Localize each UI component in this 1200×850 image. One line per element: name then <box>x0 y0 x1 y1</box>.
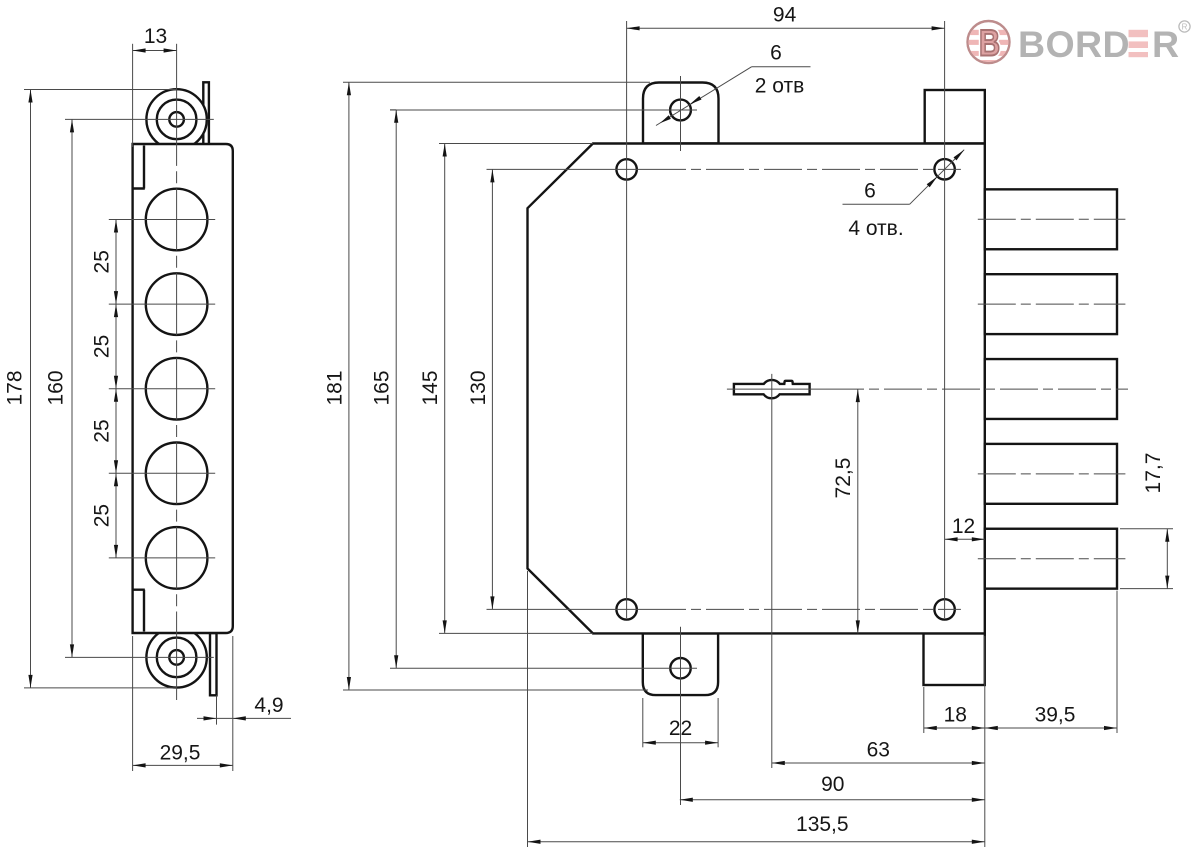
right view: bolt 2 <box>985 274 1117 334</box>
dim 178 line <box>30 90 32 688</box>
dim 13 arrow left <box>133 48 146 52</box>
centerline: bottom holes horizontal <box>487 608 649 610</box>
dim 72,5 line <box>857 389 859 633</box>
svg-text:165: 165 <box>371 370 394 405</box>
svg-text:25: 25 <box>91 335 114 358</box>
left view: hole 5 horizontal centerline <box>109 557 215 559</box>
svg-text:6: 6 <box>864 180 876 203</box>
dim 12 line <box>945 538 985 540</box>
dim 130 arrows <box>490 169 494 182</box>
centerline: top holes horizontal <box>487 168 649 170</box>
right view: bottom tab hole <box>670 658 690 678</box>
dim 4,9 arrow left <box>204 716 217 720</box>
leader 6/4otv arrow near <box>927 177 938 188</box>
dim 29,5 extension left <box>132 636 134 771</box>
left view: top roller outer circle <box>146 89 206 149</box>
dim 17,7 ext bottom <box>1120 588 1173 590</box>
dim 29,5 extension right <box>232 636 234 771</box>
leader 6/2otv arrow near <box>689 96 701 105</box>
svg-text:4,9: 4,9 <box>254 694 283 717</box>
left view: top roller retainer bar <box>203 82 209 144</box>
dim 160 arrow bottom <box>70 644 74 657</box>
dim 4,9 arrow right <box>233 716 246 720</box>
dim 17,7 ext top <box>1120 528 1173 530</box>
leader 6/2otv arrow far <box>660 115 671 123</box>
svg-text:25: 25 <box>91 504 114 527</box>
dim 181 arrows <box>347 82 351 95</box>
left view: faceplate outline <box>133 144 233 633</box>
dim 13 line <box>133 50 177 52</box>
dim 29,5 arrow left <box>133 763 146 767</box>
dim 94 line <box>627 27 945 29</box>
dim 18 ext left <box>923 687 925 733</box>
right view: bottom mounting tab <box>643 633 718 695</box>
svg-text:BORD: BORD <box>1018 23 1130 65</box>
dim 13 arrow right <box>164 48 177 52</box>
dim 94 arrow left <box>627 26 640 30</box>
dim 145 ext top <box>439 143 593 145</box>
svg-text:25: 25 <box>91 419 114 442</box>
centerline: bolt row <box>978 303 1126 305</box>
svg-text:72,5: 72,5 <box>832 458 855 499</box>
svg-text:94: 94 <box>773 3 797 26</box>
svg-text:145: 145 <box>419 370 442 405</box>
dim 22 ext right <box>717 698 719 747</box>
svg-text:178: 178 <box>3 370 26 405</box>
svg-text:90: 90 <box>821 773 844 796</box>
left view: bottom roller middle circle <box>157 638 197 678</box>
svg-text:160: 160 <box>45 370 68 405</box>
left view: hole 4 horizontal centerline <box>109 472 215 474</box>
svg-text:25: 25 <box>91 250 114 273</box>
left view: vertical centerline <box>176 44 178 150</box>
dim 17,7 arrows <box>1165 529 1169 542</box>
ext body left edge down <box>527 571 529 847</box>
dim 135,5 line <box>528 841 985 843</box>
dim 18 line <box>924 727 985 729</box>
svg-text:R: R <box>1182 22 1188 31</box>
centerline: bottom tab hole vertical (ext for dim 90) <box>680 627 682 805</box>
svg-text:17,7: 17,7 <box>1142 453 1165 494</box>
ext body right edge down <box>984 636 986 847</box>
right view: lock body outline <box>528 144 985 634</box>
logo letter E (pink bars) <box>1129 30 1149 37</box>
dim 135,5 arrows <box>528 840 541 844</box>
dim 25-chain arrow pair <box>114 376 118 389</box>
left view: bottom roller pin circle <box>169 650 184 665</box>
centerline: bolt row <box>978 473 1126 475</box>
dim 165 ext top <box>390 109 396 111</box>
leader 6/2otv line <box>752 66 811 68</box>
dim 63 line <box>772 762 985 764</box>
centerline: cam vertical (ext for dim 63) <box>771 374 773 768</box>
right view: bolt 5 <box>985 529 1117 589</box>
dim 22 line <box>643 742 718 744</box>
right view: cylinder cam <box>734 380 810 398</box>
dim 178 arrow bottom <box>28 675 32 688</box>
dim 39,5 line <box>985 727 1117 729</box>
centerline: bolt row <box>978 558 1126 560</box>
left view: hole 2 horizontal centerline <box>109 303 215 305</box>
svg-text:181: 181 <box>323 370 346 405</box>
right view: bolt 3 <box>985 359 1117 419</box>
centerline: cam/bolt3 horizontal <box>727 388 826 390</box>
svg-text:63: 63 <box>867 739 890 762</box>
right view: bolt 4 <box>985 444 1117 504</box>
dim 39,5 arrows <box>985 726 998 730</box>
dim 25-chain arrow bottom <box>114 545 118 558</box>
left view: hole circle 4 <box>146 443 208 505</box>
right view: top-right screw hole <box>934 159 954 179</box>
dim 12 arrows <box>945 537 958 541</box>
dim 25-chain arrow pair <box>114 460 118 473</box>
svg-text:6: 6 <box>770 42 782 65</box>
dim 25-chain line <box>115 220 117 558</box>
dim 63 arrows <box>772 761 785 765</box>
dim 178 arrow top <box>28 90 32 103</box>
dim 160 arrow top <box>70 119 74 132</box>
left view: hole circle 2 <box>146 273 208 335</box>
svg-text:R: R <box>1152 23 1179 65</box>
left view: hole circle 1 <box>146 189 208 251</box>
dim 165 arrows <box>394 110 398 123</box>
svg-text:12: 12 <box>952 515 975 538</box>
right view: bottom-right screw hole <box>934 599 954 619</box>
left view: bottom roller horizontal centerline <box>65 656 214 658</box>
svg-text:135,5: 135,5 <box>796 813 849 836</box>
centerline: right holes vertical (ext for dims 94/12) <box>944 21 946 618</box>
dim 29,5 arrow right <box>220 763 233 767</box>
right view: top tab hole <box>670 100 691 121</box>
dim 4,9 line+tails <box>197 717 217 719</box>
dim 178 extension top <box>24 89 177 91</box>
dim 94 arrow right <box>932 26 945 30</box>
svg-text:B: B <box>979 23 1000 64</box>
dim 13 extension line left <box>132 44 134 147</box>
left view: top roller middle circle <box>157 100 197 140</box>
dim 29,5 line <box>133 764 233 766</box>
dim 90 arrows <box>680 798 693 802</box>
dim 39,5 ext right <box>1116 591 1118 733</box>
left view: top-left flange fold line <box>133 146 145 189</box>
dim 160 line <box>71 119 73 657</box>
left view: bottom roller retainer bar <box>210 633 217 695</box>
right view: top right tab <box>925 90 985 144</box>
centerline: left holes vertical (ext for dim 94) <box>626 21 628 618</box>
left view: bottom roller outer circle <box>146 627 206 687</box>
left view: hole circle 3 <box>146 358 208 420</box>
leader 6/4otv arrow far <box>954 150 965 161</box>
dim 25-chain arrow pair <box>114 291 118 304</box>
svg-text:39,5: 39,5 <box>1035 704 1076 727</box>
left view: top roller horizontal centerline <box>65 118 214 120</box>
right view: top mounting tab <box>643 83 719 144</box>
dim 181 ext top <box>343 81 650 83</box>
dim 22 arrows <box>643 741 656 745</box>
dim 72,5 arrows <box>856 389 860 402</box>
left view: hole 3 horizontal centerline <box>109 388 215 390</box>
svg-text:130: 130 <box>467 370 490 405</box>
svg-text:13: 13 <box>144 25 167 48</box>
svg-text:18: 18 <box>944 704 967 727</box>
centerline: top tab hole horizontal (ext for dim 165) <box>390 109 697 111</box>
left view: top roller pin circle <box>169 112 184 127</box>
dim 145 ext bottom <box>439 632 593 634</box>
dim 25-chain arrow top <box>114 220 118 233</box>
dim 130 line <box>491 169 493 609</box>
dim 145 arrows <box>443 144 447 157</box>
dim 181 line <box>348 82 350 690</box>
leader 6/4otv line <box>843 203 910 205</box>
svg-text:2 отв: 2 отв <box>755 75 805 98</box>
svg-text:22: 22 <box>669 717 692 740</box>
right view: bolt 1 <box>985 189 1117 249</box>
left view: bottom-left flange fold line <box>133 590 145 632</box>
dim 22 ext left <box>642 698 644 747</box>
dim 178 extension bottom <box>24 687 177 689</box>
dim 165 line <box>395 110 397 668</box>
left view: hole circle 5 <box>146 527 208 589</box>
dim 17,7 line <box>1166 529 1168 589</box>
left view: hole 1 horizontal centerline <box>109 219 215 221</box>
right view: bottom right tab <box>924 633 985 685</box>
dim 90 line <box>680 799 985 801</box>
svg-text:29,5: 29,5 <box>160 742 201 765</box>
dim 145 line <box>444 144 446 634</box>
right view: bottom-left screw hole <box>616 599 636 619</box>
centerline: bottom tab hole horizontal (ext for dim 165) <box>390 667 697 669</box>
dim 4,9 extension bar edge <box>216 695 218 724</box>
dim 18 arrows <box>924 726 937 730</box>
centerline: top tab hole vertical <box>680 76 682 151</box>
logo registered mark <box>1179 21 1190 32</box>
svg-text:4 отв.: 4 отв. <box>848 217 903 240</box>
dim 181 ext bottom <box>343 689 648 691</box>
centerline: bolt row <box>978 218 1126 220</box>
right view: top-left screw hole <box>616 159 636 179</box>
